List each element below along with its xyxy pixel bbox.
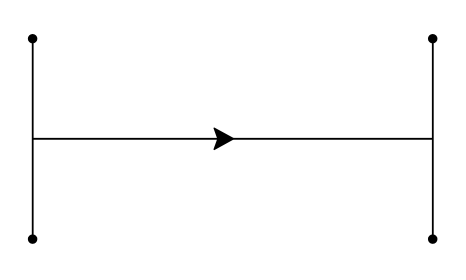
terminal dot: right top xyxy=(428,34,437,43)
terminal dot: right bottom xyxy=(428,235,437,244)
current direction arrow xyxy=(214,128,233,149)
wire: horizontal connecting line xyxy=(33,138,433,140)
terminal dot: left bottom xyxy=(28,235,37,244)
wire: right vertical branch xyxy=(432,39,434,239)
terminal dot: left top xyxy=(28,34,37,43)
wire: left vertical branch xyxy=(32,39,34,239)
